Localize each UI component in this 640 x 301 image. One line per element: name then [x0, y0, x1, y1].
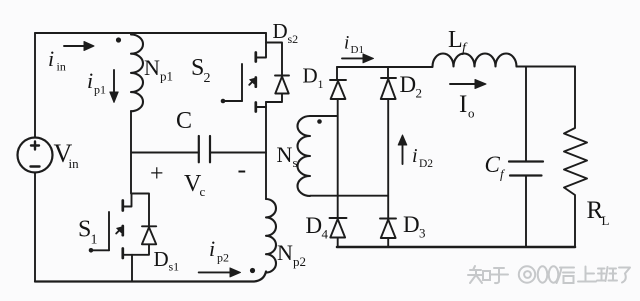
diode D3 [380, 219, 396, 248]
svg-text:p1: p1 [94, 83, 106, 97]
source V_in [18, 138, 53, 173]
wire: bridge right rail stub [387, 67, 389, 78]
svg-text:+: + [150, 161, 164, 187]
label C_f [485, 152, 507, 182]
svg-text:s1: s1 [169, 260, 180, 274]
label C [176, 108, 192, 134]
label L_f [448, 27, 468, 56]
arrow i_p1 [110, 70, 118, 103]
svg-text:D: D [400, 72, 417, 97]
label D_2 [400, 72, 423, 101]
svg-text:I: I [459, 91, 467, 118]
label plus V_c [150, 161, 164, 187]
arrow i_p2 [199, 268, 241, 277]
svg-text:N: N [277, 240, 293, 265]
svg-text:i: i [209, 236, 215, 261]
wire: bridge top rail [337, 66, 433, 68]
wire: primary left rail lower [34, 173, 36, 282]
label i_D1 [344, 33, 364, 57]
svg-text:N: N [144, 55, 160, 80]
svg-text:S: S [191, 55, 204, 81]
transistor S2 [221, 33, 266, 112]
svg-text:4: 4 [322, 227, 329, 242]
inductor N_p1 [131, 35, 143, 112]
svg-text:s2: s2 [288, 32, 299, 46]
label D_1 [303, 64, 324, 92]
svg-text:D2: D2 [419, 158, 433, 170]
svg-text:i: i [412, 145, 418, 167]
arrow i_D2 [398, 135, 407, 164]
label V_c [184, 171, 206, 199]
label N_p2 [277, 240, 306, 269]
wire: primary bottom rail [35, 272, 266, 282]
svg-text:L: L [448, 27, 463, 53]
svg-text:2: 2 [204, 71, 211, 86]
label i_D2 [412, 145, 433, 170]
inductor L_f [433, 54, 517, 67]
diode D2 [381, 78, 396, 219]
svg-text:C: C [485, 152, 501, 177]
wire: S2 source down to N_p2 [265, 102, 267, 199]
svg-text:S: S [78, 217, 91, 243]
svg-text:p2: p2 [217, 251, 229, 265]
arrow I_o [450, 80, 486, 89]
label N_s [277, 142, 298, 170]
label S_1 [78, 217, 98, 248]
svg-text:2: 2 [416, 86, 423, 101]
wire: S1 source to bottom rail [131, 255, 133, 282]
svg-text:D1: D1 [351, 44, 364, 56]
label D_s1 [154, 247, 180, 274]
label V_in [54, 139, 80, 171]
transistor S1 [89, 194, 132, 259]
wire: primary left rail upper [34, 33, 36, 138]
label D_4 [306, 213, 329, 242]
label R_L [587, 197, 610, 228]
node dot: N_p1 polarity [116, 37, 121, 42]
wire: N_p1 bottom to S1 drain node [130, 111, 132, 194]
svg-text:c: c [200, 184, 206, 199]
svg-text:D: D [306, 213, 323, 238]
svg-text:p1: p1 [160, 69, 173, 84]
svg-text:L: L [602, 213, 610, 228]
svg-text:3: 3 [419, 226, 426, 241]
svg-text:o: o [468, 106, 475, 121]
label i_p1 [87, 68, 106, 97]
wire: bridge left rail [336, 67, 338, 80]
svg-text:D: D [403, 212, 420, 237]
node dot: N_p2 polarity [250, 268, 255, 273]
wire: secondary bottom rail [337, 246, 575, 249]
resistor R_L [564, 67, 587, 248]
diode D_s2 [266, 43, 289, 103]
wire: primary top rail [35, 32, 266, 34]
arrow i_D1 [342, 54, 374, 63]
label D_3 [403, 212, 426, 241]
arrow i_in [64, 42, 94, 51]
label i_p2 [209, 236, 229, 265]
wire: output top rail [517, 66, 576, 68]
svg-text:D: D [154, 247, 169, 271]
label N_p1 [144, 55, 173, 84]
label I_o [459, 91, 475, 121]
svg-text:-: - [238, 155, 247, 184]
svg-text:s: s [293, 155, 298, 170]
svg-text:i: i [48, 46, 54, 71]
svg-text:1: 1 [91, 233, 98, 248]
svg-text:D: D [303, 64, 318, 88]
inductor N_s [298, 116, 389, 196]
diode D1 [330, 80, 346, 218]
svg-text:N: N [277, 142, 293, 167]
capacitor C [132, 136, 267, 162]
svg-text:p2: p2 [293, 254, 306, 269]
diode D_s1 [132, 194, 157, 255]
svg-text:i: i [87, 68, 93, 93]
capacitor C_f [509, 67, 543, 248]
label i_in [48, 46, 66, 74]
svg-text:1: 1 [318, 77, 324, 91]
label minus V_c [238, 155, 247, 184]
svg-text:in: in [69, 156, 80, 171]
inductor N_p2 [266, 199, 276, 273]
svg-text:in: in [57, 60, 66, 74]
label S_2 [191, 55, 211, 86]
diode D4 [330, 218, 347, 247]
watermark zhihu [468, 266, 630, 283]
svg-text:C: C [176, 108, 192, 134]
svg-text:i: i [344, 33, 349, 54]
svg-text:D: D [273, 19, 288, 43]
label D_s2 [273, 19, 299, 46]
node dot: N_s polarity [317, 119, 322, 124]
